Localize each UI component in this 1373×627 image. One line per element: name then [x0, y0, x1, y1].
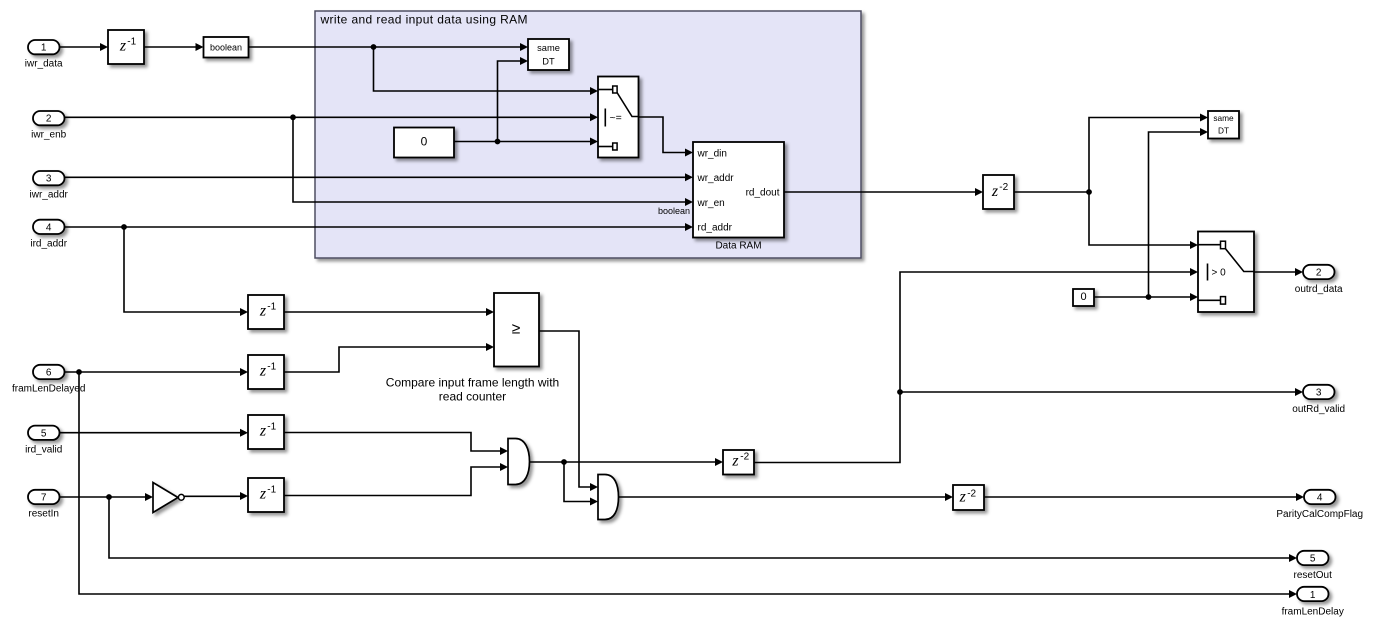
wire branch to switch2 in1: [1089, 192, 1198, 249]
wire z-2 b to outport4: [984, 493, 1304, 501]
svg-text:outrd_data: outrd_data: [1295, 284, 1343, 295]
wire branch to sameDT2 in1: [1089, 114, 1208, 193]
svg-text:z: z: [259, 423, 267, 440]
wire z1 row1 to relational in1: [284, 308, 494, 316]
svg-text:iwr_enb: iwr_enb: [31, 130, 66, 141]
delay z-2 b: [953, 485, 984, 510]
svg-text:3: 3: [1316, 388, 1322, 399]
outport 1 framLenDelay: [1282, 587, 1344, 618]
svg-text:wr_addr: wr_addr: [697, 173, 735, 184]
constant 0 small: [1073, 289, 1094, 306]
outport 2 outrd_data: [1295, 265, 1343, 295]
and gate 2: [598, 475, 619, 520]
svg-text:resetOut: resetOut: [1294, 570, 1333, 581]
svg-text:DT: DT: [1218, 126, 1229, 136]
svg-text:framLenDelay: framLenDelay: [1282, 606, 1344, 617]
svg-text:-2: -2: [740, 452, 749, 463]
wire and1 to z-2 mid: [530, 458, 724, 466]
wire branch to outport3: [900, 388, 1303, 396]
svg-text:z: z: [959, 489, 967, 506]
same DT block 2: [1208, 111, 1239, 139]
svg-text:-1: -1: [267, 362, 276, 373]
wire branch to delay z1 row1: [124, 227, 248, 316]
switch block 2 (> 0): [1198, 232, 1254, 313]
wire inport3 to RAM wr_addr: [65, 173, 694, 181]
switch block 1 (~=): [598, 77, 639, 158]
junction dot: [76, 369, 82, 375]
svg-text:read counter: read counter: [439, 390, 506, 404]
svg-text:Data RAM: Data RAM: [715, 240, 761, 251]
area box: write and read input data using RAM: [315, 11, 861, 258]
svg-text:2: 2: [1316, 268, 1322, 279]
delay z-2 mid: [723, 450, 754, 475]
wire z1 row2 to relational in2: [284, 343, 494, 372]
wire inport1 to delay1: [60, 43, 109, 51]
svg-text:ird_addr: ird_addr: [30, 239, 67, 250]
svg-text:rd_addr: rd_addr: [698, 223, 733, 234]
delay z1 row1: [248, 295, 284, 329]
svg-text:z: z: [731, 453, 739, 470]
svg-text:3: 3: [46, 174, 52, 185]
inport 2 iwr_enb: [31, 111, 66, 141]
outport 5 resetOut: [1294, 551, 1333, 581]
svg-text:~=: ~=: [610, 112, 622, 124]
junction dot: [371, 44, 377, 50]
wire z1 row4 to and1 in2: [284, 463, 508, 496]
svg-text:1: 1: [1310, 590, 1316, 601]
svg-text:z: z: [119, 38, 127, 55]
delay z1 row3: [248, 415, 284, 449]
svg-text:-1: -1: [267, 422, 276, 433]
junction dot: [106, 494, 112, 500]
svg-text:Compare input frame length wit: Compare input frame length with: [386, 376, 559, 390]
wire and2 to z-2 b: [619, 493, 954, 501]
inport 3 iwr_addr: [30, 171, 69, 201]
delay block z-2 a: [983, 175, 1014, 209]
junction dot: [121, 224, 127, 230]
svg-text:write and read input data usin: write and read input data using RAM: [320, 12, 528, 26]
svg-text:ParityCalCompFlag: ParityCalCompFlag: [1276, 509, 1363, 520]
svg-text:5: 5: [1310, 554, 1316, 565]
svg-text:> 0: > 0: [1212, 267, 1227, 278]
constant 0: [394, 128, 454, 158]
svg-text:-1: -1: [127, 37, 136, 48]
not gate: [153, 483, 184, 513]
delay z1 row4: [248, 478, 284, 512]
svg-text:0: 0: [1080, 291, 1086, 303]
relational operator >=: [494, 293, 539, 367]
inport 7 resetIn: [28, 490, 60, 520]
wire inport2 to switch1 control: [65, 113, 599, 121]
annotation: Compare input frame length with read counter: [386, 376, 559, 404]
wire branch to outport1 framLenDelay: [79, 372, 1297, 598]
wire inport6 to delay z1 row2: [65, 368, 249, 376]
wire delay1 to boolean: [144, 43, 204, 51]
wire not gate to z1 row4: [184, 492, 248, 500]
svg-text:2: 2: [46, 114, 52, 125]
wire switch1 out to RAM wr_din: [639, 117, 694, 157]
junction dot: [1146, 294, 1152, 300]
svg-text:≥: ≥: [512, 321, 521, 338]
wire branch to switch1 in1: [374, 47, 599, 95]
svg-text:DT: DT: [542, 57, 555, 67]
svg-text:z: z: [259, 363, 267, 380]
svg-text:0: 0: [421, 134, 428, 148]
svg-text:4: 4: [1317, 493, 1323, 504]
wire z-2 mid to switch2 control: [754, 268, 1198, 463]
and gate 1: [508, 439, 530, 485]
junction dot: [290, 114, 296, 120]
inport 6 framLenDelayed: [12, 365, 85, 395]
svg-text:5: 5: [41, 428, 47, 439]
same DT block 1: [528, 39, 569, 70]
svg-text:4: 4: [46, 222, 52, 233]
svg-text:6: 6: [46, 368, 52, 379]
wire switch2 to outport2: [1254, 268, 1303, 276]
wire inport4 to RAM rd_addr: [65, 223, 694, 231]
svg-text:boolean: boolean: [658, 206, 690, 216]
delay block z-1 top: [108, 30, 144, 64]
junction dot: [897, 389, 903, 395]
svg-text:iwr_data: iwr_data: [25, 59, 63, 70]
junction dot: [1086, 189, 1092, 195]
wire constant0 small to switch2 in3: [1094, 293, 1198, 301]
delay z1 row2: [248, 355, 284, 389]
wire branch to sameDT1 in2: [498, 57, 529, 142]
svg-text:-2: -2: [967, 488, 976, 499]
inport 4 ird_addr: [30, 220, 67, 250]
svg-text:-2: -2: [999, 182, 1008, 193]
svg-text:wr_din: wr_din: [697, 148, 727, 159]
outport 4 ParityCalCompFlag: [1276, 490, 1363, 520]
wire z1 row3 to and1 in1: [284, 433, 508, 456]
wire constant0 to switch1 in3: [454, 138, 599, 146]
wire RAM rd_dout to z-2 a: [784, 188, 983, 196]
wire z-2 a out: [1014, 191, 1089, 193]
wire branch to outport5 resetOut: [109, 497, 1297, 562]
svg-text:7: 7: [41, 493, 47, 504]
svg-text:ird_valid: ird_valid: [25, 444, 62, 455]
svg-text:-1: -1: [267, 302, 276, 313]
outport 3 outRd_valid: [1292, 385, 1345, 415]
svg-text:same: same: [1213, 113, 1234, 123]
wire branch to RAM wr_en: [293, 117, 693, 206]
wire boolean to sameDT1 in1: [249, 43, 529, 51]
svg-text:boolean: boolean: [210, 43, 242, 53]
data type conversion boolean: [204, 37, 249, 58]
svg-text:1: 1: [41, 43, 47, 54]
wire inport7 to not gate: [60, 493, 154, 501]
inport 5 ird_valid: [25, 426, 62, 456]
Data RAM block: [693, 142, 784, 251]
svg-text:same: same: [537, 43, 560, 53]
svg-text:wr_en: wr_en: [697, 198, 725, 209]
svg-text:framLenDelayed: framLenDelayed: [12, 384, 85, 395]
inport 1 iwr_data: [25, 40, 63, 70]
svg-text:z: z: [259, 303, 267, 320]
wire relational out to and2 in1: [539, 331, 598, 491]
svg-text:rd_dout: rd_dout: [746, 188, 780, 199]
svg-text:resetIn: resetIn: [28, 509, 59, 520]
svg-text:iwr_addr: iwr_addr: [30, 190, 69, 201]
junction dot: [561, 459, 567, 465]
svg-text:-1: -1: [267, 485, 276, 496]
wire branch to and2 in2: [564, 462, 598, 506]
wire branch to sameDT2 in2: [1149, 128, 1209, 297]
svg-text:outRd_valid: outRd_valid: [1292, 404, 1345, 415]
wire inport5 to z1 row3: [60, 429, 249, 437]
svg-text:z: z: [991, 183, 999, 200]
svg-text:z: z: [259, 486, 267, 503]
junction dot: [495, 139, 501, 145]
